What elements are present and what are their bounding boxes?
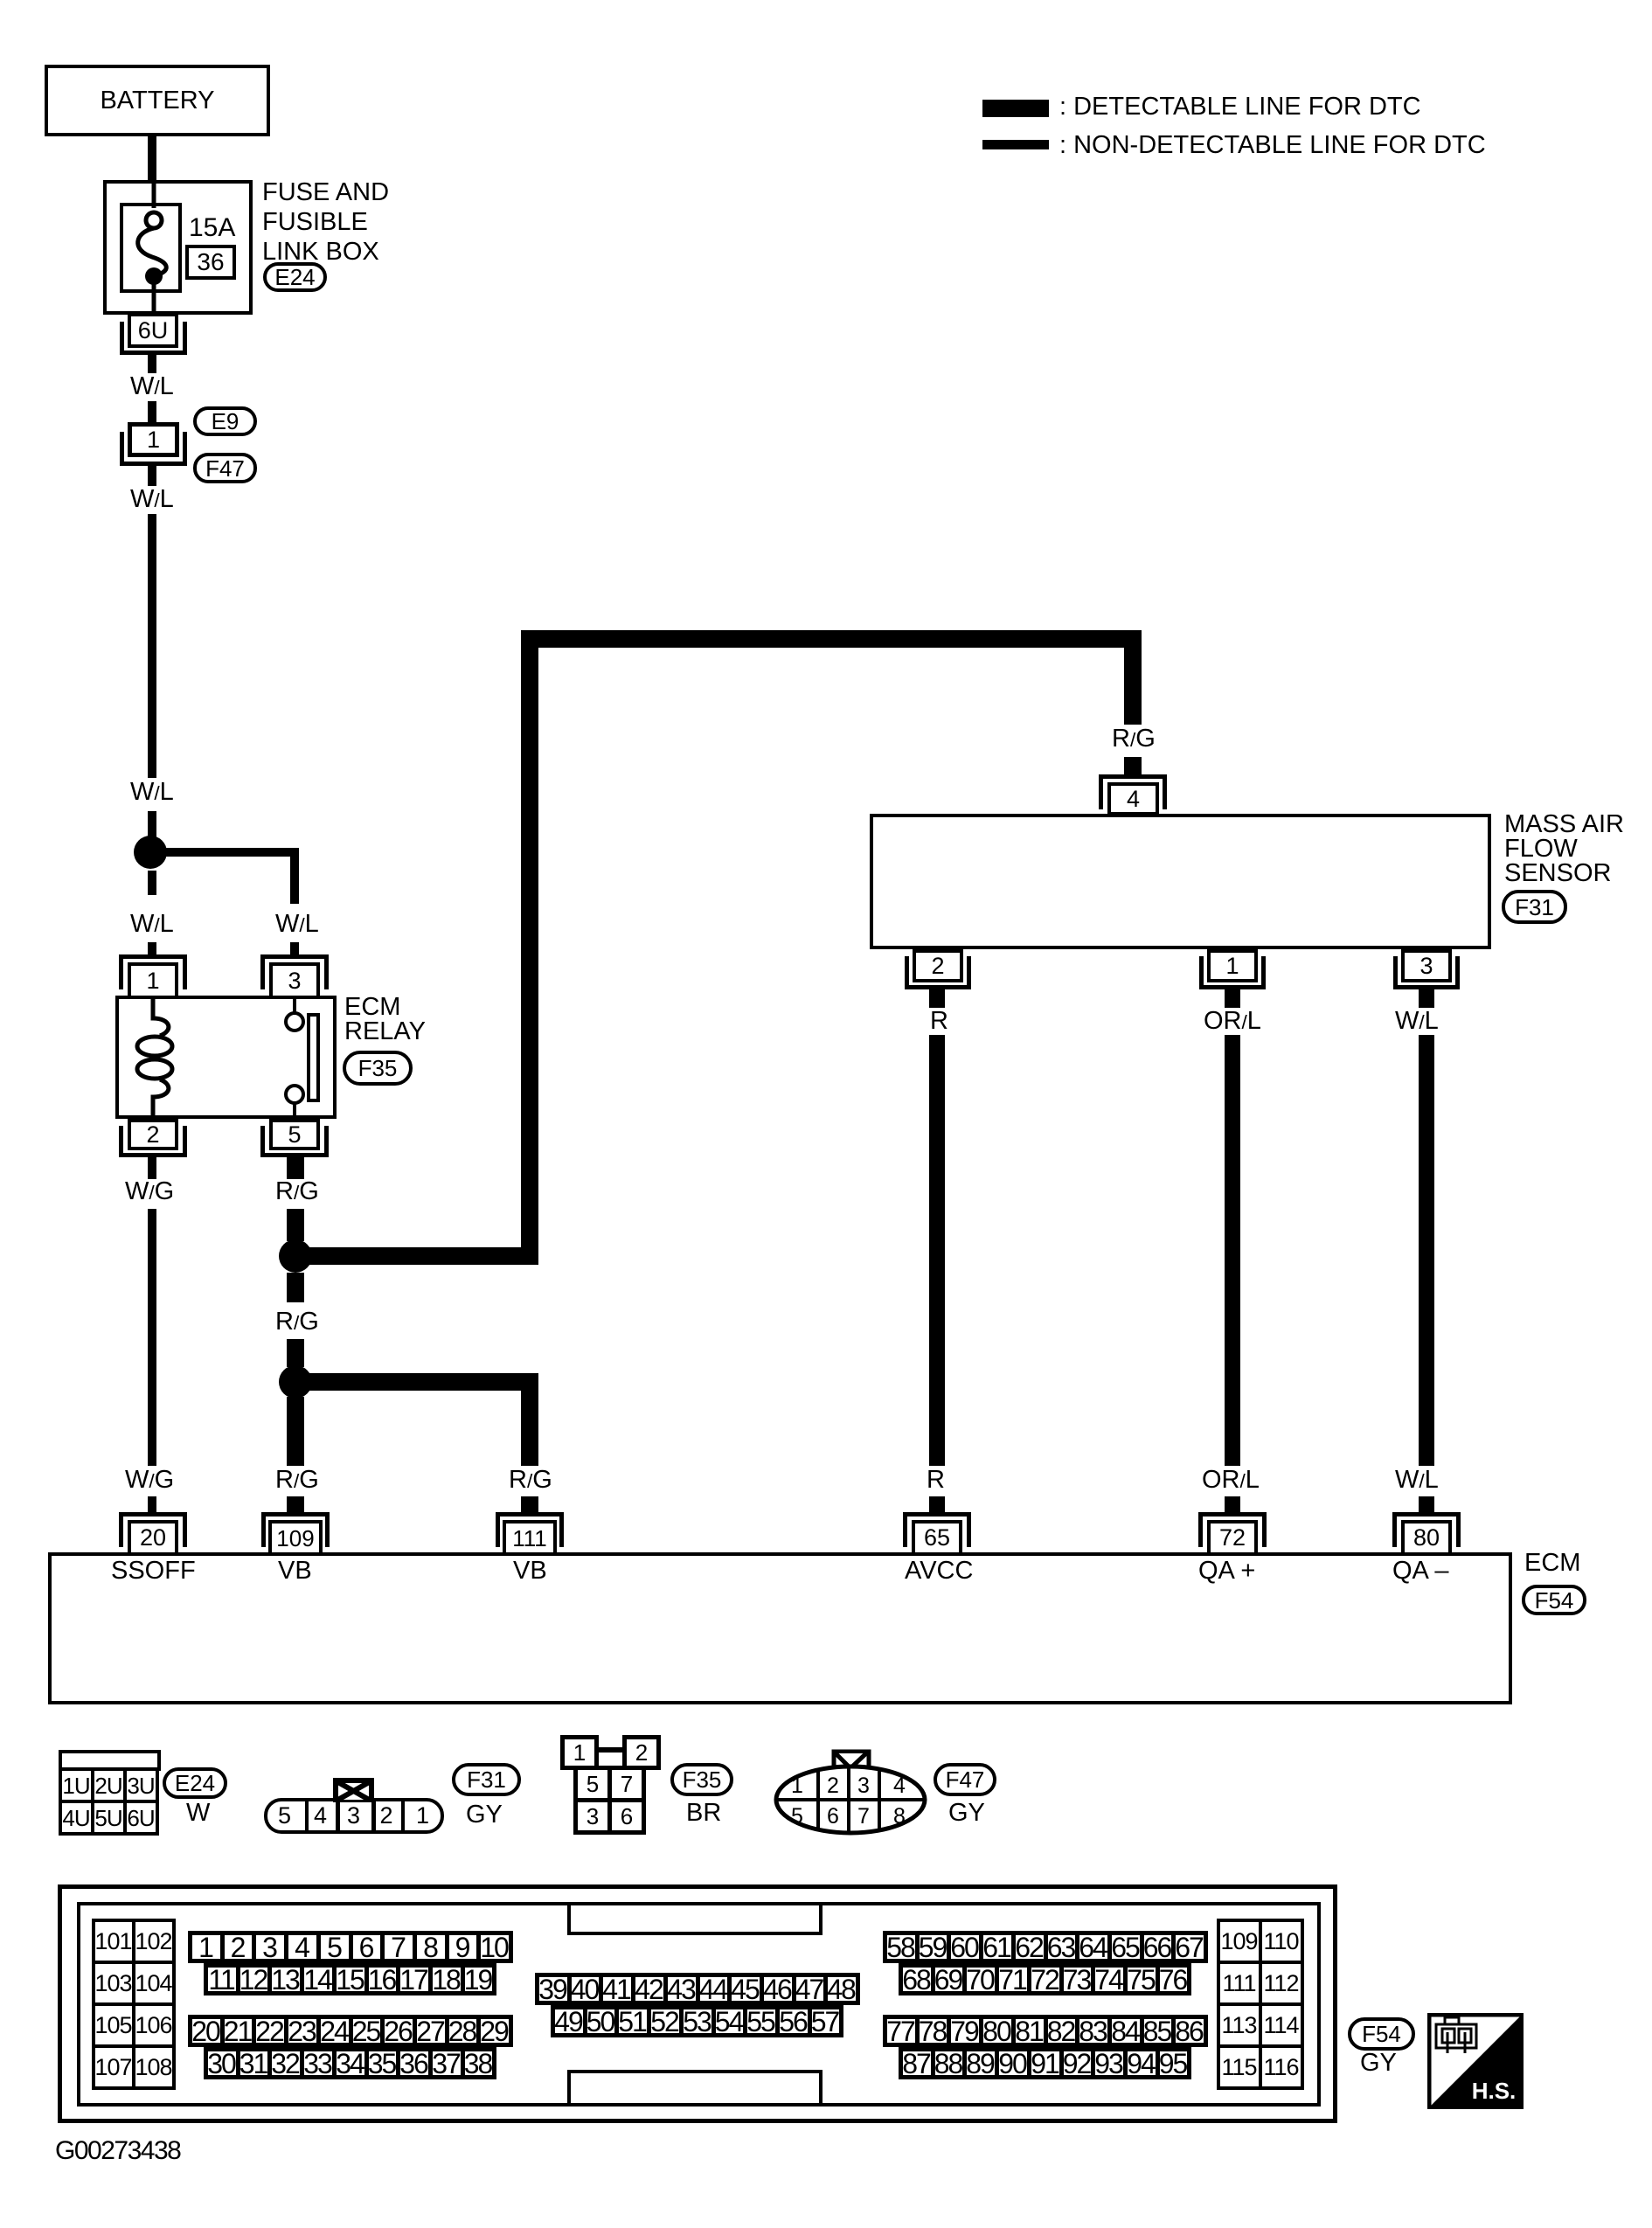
ECM connector pins 49-57 [551, 2005, 843, 2037]
label QA + [1198, 1558, 1255, 1584]
legend detectable text [1059, 94, 1421, 120]
wire stub into ECM pin72 [1225, 1496, 1240, 1512]
wire branch vertical to relay pin3 [290, 848, 299, 904]
label ECM [1524, 1551, 1580, 1576]
ECM connector pins 30-38 [204, 2047, 496, 2079]
svg-text:1: 1 [791, 1773, 803, 1798]
connector F31 oval label [452, 1763, 521, 1796]
ECM F54 body [48, 1552, 1512, 1704]
ECM connector bottom notch [567, 2070, 823, 2107]
wire stub into ECM pin65 [929, 1496, 945, 1512]
label QA - [1392, 1558, 1449, 1584]
ECM connector pins 11-19 [204, 1963, 496, 1995]
label W/L 2 [130, 487, 174, 512]
label R/G mid [275, 1309, 319, 1335]
wire stub into ECM pin20 [148, 1496, 156, 1512]
label ECM RELAY [344, 995, 426, 1044]
label W/L [130, 374, 174, 399]
wire 6U to label [148, 355, 156, 373]
label OR/L [1204, 1009, 1261, 1034]
label W/L MAF [1395, 1009, 1439, 1034]
mass air flow sensor F31 body [870, 814, 1491, 949]
ECM connector inner box [77, 1902, 1321, 2107]
wire label to connector 1 [148, 401, 156, 422]
label OR/L 2 [1202, 1468, 1260, 1493]
svg-text:4: 4 [893, 1773, 906, 1798]
MAF pin 1 [1207, 949, 1258, 982]
wire junction B horizontal [297, 1247, 538, 1265]
label GY F54 [1360, 2051, 1397, 2076]
svg-text:7: 7 [857, 1804, 870, 1829]
wire below junction [148, 871, 156, 895]
connector E24 oval label [163, 1767, 227, 1799]
ECM pin 109 [261, 1512, 330, 1547]
wire thick vertical right [1124, 648, 1142, 725]
ECM connector outer box [58, 1884, 1337, 2123]
ECM connector pins 68-76 [899, 1963, 1191, 1995]
wire thick vertical to pin111 [521, 1391, 538, 1466]
label R/G at MAF pin4 [1112, 726, 1156, 752]
connector E24 oval [263, 262, 327, 292]
label W/L relay pin1 [130, 912, 174, 937]
ECM connector pins 1-10 [188, 1931, 513, 1963]
wire R/G below relay pin5 [287, 1157, 304, 1179]
svg-text:3: 3 [857, 1773, 870, 1798]
ECM connector pins 101-108 [92, 1919, 176, 2090]
label SSOFF [111, 1558, 196, 1584]
legend non-detectable text [1059, 133, 1486, 158]
connector F47 oval [193, 453, 257, 483]
label 15A [189, 215, 235, 241]
wire W/G below relay pin2 [148, 1157, 156, 1179]
relay coil [131, 996, 184, 1120]
label W/G 2 [125, 1468, 174, 1493]
ECM pin 20 [119, 1512, 187, 1547]
wire W/L long [1419, 1035, 1434, 1466]
label W color [186, 1801, 210, 1826]
ECM pin 72 [1198, 1512, 1267, 1547]
connector 6U [128, 313, 178, 348]
label R/G at pin111 [509, 1468, 552, 1493]
fuse holder box [120, 203, 182, 293]
connector F35 pin grid [560, 1735, 599, 1770]
label W/L MAF 2 [1395, 1468, 1439, 1493]
svg-text:5: 5 [791, 1804, 803, 1829]
relay switch contact [271, 996, 332, 1120]
legend non-detectable line sample [982, 140, 1049, 149]
wire stub into relay pin1 [148, 942, 156, 954]
wire OR/L below MAF pin1 [1225, 989, 1240, 1008]
wire stub into relay pin3 [290, 942, 299, 954]
relay pin 3 [260, 954, 329, 989]
fuse and fusible link box E24 [103, 180, 253, 315]
wire thick vertical left [521, 648, 538, 1265]
label W/G [125, 1179, 174, 1204]
label R [930, 1009, 948, 1034]
node junction C [279, 1365, 312, 1399]
wire W/L below MAF pin3 [1419, 989, 1434, 1008]
fuse 15A element [114, 175, 201, 323]
wire branch horizontal [157, 848, 299, 857]
wire connector 1 to label [148, 466, 156, 486]
wire stub into ECM pin109 [287, 1496, 304, 1512]
relay F35 oval [343, 1051, 413, 1086]
ECM connector pins 58-67 [883, 1931, 1208, 1963]
wire OR/L long [1225, 1035, 1240, 1466]
label W/L relay pin3 [275, 912, 319, 937]
wire W/L to junction [148, 811, 156, 837]
ECM connector top notch [567, 1902, 823, 1935]
wire below junction B [287, 1273, 304, 1302]
ECM pin 65 [903, 1512, 971, 1547]
ECM pin 80 [1392, 1512, 1461, 1547]
ECM F54 oval [1522, 1585, 1586, 1615]
svg-text:6: 6 [827, 1804, 839, 1829]
relay pin 5 [269, 1119, 320, 1150]
label G00273438 [55, 2138, 180, 2164]
label MASS AIR FLOW SENSOR [1504, 812, 1624, 885]
node junction W/L [134, 836, 167, 869]
legend detectable line sample [982, 100, 1049, 117]
wire junction C horizontal [297, 1373, 538, 1391]
MAF pin 2 [913, 949, 963, 982]
label VB 109 [278, 1558, 312, 1584]
label FUSE AND FUSIBLE LINK BOX [262, 177, 389, 267]
ECM connector pins 77-86 [883, 2015, 1208, 2047]
wire thick top horizontal [521, 630, 1142, 648]
label W/L 3 [130, 780, 174, 805]
relay F35 body [115, 996, 337, 1119]
label R 2 [927, 1468, 945, 1493]
fuse number 36 [185, 245, 236, 280]
MAF pin 4 [1099, 774, 1167, 809]
wire R/G to junction C [287, 1339, 304, 1367]
label VB 111 [513, 1558, 547, 1584]
connector F54 oval label [1348, 2017, 1415, 2051]
wire below junction C [287, 1397, 304, 1466]
wire stub into ECM pin111 [521, 1496, 538, 1512]
connector F47 oval label [934, 1763, 996, 1796]
MAF pin 3 [1401, 949, 1452, 982]
label BR F35 [686, 1801, 721, 1826]
label R/G at pin109 [275, 1468, 319, 1493]
connector F47 pin ellipse [772, 1745, 929, 1836]
MAF F31 oval [1502, 890, 1567, 924]
node junction B [279, 1239, 312, 1273]
wire R/G to junction B [287, 1209, 304, 1241]
connector E9 oval [193, 406, 257, 436]
svg-text:H.S.: H.S. [1472, 2078, 1517, 2104]
wire R long [929, 1035, 945, 1466]
label R/G [275, 1179, 319, 1204]
ECM connector pins 109-116 [1217, 1919, 1304, 2090]
label GY F47 [948, 1801, 985, 1826]
wire long W/L [148, 514, 156, 778]
relay pin 2 [128, 1119, 178, 1150]
relay pin 1 [119, 954, 187, 989]
label GY F31 [466, 1802, 503, 1828]
wire battery to fuse box [148, 136, 156, 180]
ECM pin 111 [496, 1512, 564, 1547]
svg-text:2: 2 [827, 1773, 839, 1798]
wire W/G long [148, 1209, 156, 1466]
ECM connector pins 20-29 [188, 2015, 513, 2047]
symbol H.S. [1427, 2013, 1524, 2109]
connector E24 pin grid [59, 1750, 161, 1771]
wire R below MAF pin2 [929, 989, 945, 1008]
connector F35 oval label [670, 1763, 733, 1796]
battery [45, 65, 270, 136]
ECM connector pins 87-95 [899, 2047, 1191, 2079]
wire stub into ECM pin80 [1419, 1496, 1434, 1512]
connector 1 E9/F47 [128, 422, 179, 457]
ECM connector pins 39-48 [535, 1973, 860, 2005]
label AVCC [905, 1558, 973, 1584]
connector F31 pin pill [264, 1798, 444, 1834]
wire stub into MAF pin4 [1124, 757, 1142, 774]
svg-text:8: 8 [893, 1804, 906, 1829]
